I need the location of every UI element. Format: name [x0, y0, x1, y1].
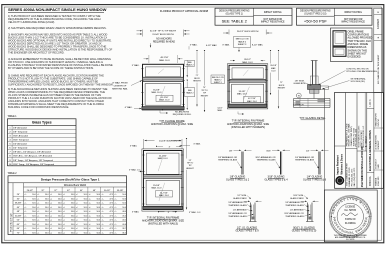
svg-text:50.0: 50.0 — [58, 232, 61, 234]
svg-text:3" MAX.: 3" MAX. — [193, 142, 201, 145]
svg-text:FLORIDA: FLORIDA — [345, 222, 356, 225]
svg-text:3/16" Tempered: 3/16" Tempered — [13, 139, 29, 142]
svg-text:FL# 58705: FL# 58705 — [346, 239, 354, 241]
svg-text:3/16" Ann., 1/4" Airspace, 1/8: 3/16" Ann., 1/4" Airspace, 1/8" Annealed — [13, 155, 53, 158]
svg-text:(GLASS TYPE 1): (GLASS TYPE 1) — [226, 13, 244, 16]
svg-text:3" MAX.: 3" MAX. — [222, 43, 230, 46]
svg-text:1/8" ANNEALED OR: 1/8" ANNEALED OR — [228, 201, 247, 204]
svg-text:HEIGHT: HEIGHT — [193, 81, 201, 83]
svg-text:47.5: 47.5 — [110, 220, 113, 222]
svg-text:DOW 795, 899, 995 OR: DOW 795, 899, 995 OR — [347, 68, 370, 70]
svg-text:GLASS TYPES 3 & 4: GLASS TYPES 3 & 4 — [264, 179, 288, 182]
svg-text:2SH WINDOW INSTALLATION (N): 2SH WINDOW INSTALLATION (N) — [360, 146, 364, 187]
svg-text:47.5: 47.5 — [110, 211, 113, 213]
svg-text:50.0: 50.0 — [45, 203, 48, 205]
svg-text:50.0: 50.0 — [71, 211, 74, 213]
svg-text:Design Pressure (lbs/ft²) for: Design Pressure (lbs/ft²) for Glass Type… — [41, 178, 100, 182]
svg-text:42": 42" — [67, 190, 70, 192]
svg-text:1/8" ANNEALED OR: 1/8" ANNEALED OR — [218, 156, 237, 159]
svg-text:50-5/8": 50-5/8" — [15, 215, 22, 217]
svg-text:50.0: 50.0 — [71, 228, 74, 230]
svg-text:1/8" NOM.: 1/8" NOM. — [295, 81, 305, 83]
svg-text:50.0: 50.0 — [58, 207, 61, 209]
svg-text:50.0: 50.0 — [58, 224, 61, 226]
svg-text:TABLE 2: TABLE 2 — [214, 78, 221, 81]
svg-text:50.0: 50.0 — [71, 207, 74, 209]
svg-text:TABLE 2: TABLE 2 — [238, 40, 247, 43]
svg-text:50.0: 50.0 — [97, 203, 100, 205]
svg-text:TABLE 2: TABLE 2 — [186, 92, 193, 95]
svg-text:SHEET 3: SHEET 3 — [214, 82, 222, 84]
svg-text:GLASS TYPES 5 & 6: GLASS TYPES 5 & 6 — [303, 179, 327, 182]
svg-text:50.0: 50.0 — [84, 203, 87, 205]
svg-text:50.0: 50.0 — [32, 194, 35, 196]
svg-text:50.0: 50.0 — [84, 215, 87, 217]
svg-text:8-1/2" MAX.: 8-1/2" MAX. — [252, 44, 264, 47]
svg-text:SH4000A: SH4000A — [369, 176, 372, 186]
svg-text:50-1/2": 50-1/2" — [104, 190, 111, 192]
svg-text:NO ANCHORS: NO ANCHORS — [156, 37, 172, 40]
svg-text:50.0: 50.0 — [97, 198, 100, 200]
svg-text:28-1/2" BUCK WIDTH: 28-1/2" BUCK WIDTH — [237, 31, 259, 33]
svg-text:3" MAX.: 3" MAX. — [132, 64, 140, 67]
svg-text:50.0: 50.0 — [32, 220, 35, 222]
svg-text:3/16" Annealed: 3/16" Annealed — [13, 134, 29, 137]
svg-text:1/8" Annealed: 1/8" Annealed — [13, 126, 27, 129]
svg-text:1/8" ANNEALED OR: 1/8" ANNEALED OR — [285, 201, 304, 204]
svg-text:44": 44" — [17, 207, 20, 209]
svg-text:1/4" Tempered: 1/4" Tempered — [13, 147, 28, 150]
svg-text:74": 74" — [203, 87, 206, 89]
svg-text:50.0: 50.0 — [97, 215, 100, 217]
svg-text:SHEET 3: SHEET 3 — [238, 44, 247, 46]
svg-text:26-1/8": 26-1/8" — [270, 65, 277, 67]
svg-text:09/20/17: 09/20/17 — [365, 136, 367, 143]
svg-text:1/8" Ann., 1/4" Airspace, 1/8": 1/8" Ann., 1/4" Airspace, 1/8" Annealed — [13, 151, 51, 154]
svg-text:SH4000A: SH4000A — [375, 177, 378, 186]
svg-text:DESIGN PRESSURE RATING: DESIGN PRESSURE RATING — [300, 10, 331, 13]
svg-text:W: W — [298, 95, 300, 97]
svg-text:50.0: 50.0 — [45, 232, 48, 234]
svg-text:3/16" ANNEALED OR: 3/16" ANNEALED OR — [284, 212, 304, 215]
svg-text:SEE DLO ON: SEE DLO ON — [236, 39, 249, 41]
svg-text:NO ANCHORS: NO ANCHORS — [175, 110, 190, 113]
svg-text:BUCK: BUCK — [194, 78, 200, 80]
svg-text:1/8" Tempered: 1/8" Tempered — [13, 130, 28, 133]
svg-text:(GLASS TYPES 2-10): (GLASS TYPES 2-10) — [304, 13, 326, 16]
svg-text:50.0: 50.0 — [122, 194, 125, 196]
svg-text:50.0: 50.0 — [58, 194, 61, 196]
svg-text:6" MAX.: 6" MAX. — [125, 106, 133, 109]
svg-text:50.0: 50.0 — [45, 228, 48, 230]
svg-text:Windows & Doors: Windows & Doors — [340, 153, 343, 174]
svg-text:MAX. DLO: MAX. DLO — [152, 91, 162, 94]
svg-text:50.0: 50.0 — [97, 228, 100, 230]
svg-text:50.0: 50.0 — [45, 194, 48, 196]
svg-text:GE SPACER(S),: GE SPACER(S), — [351, 77, 367, 80]
svg-text:IMPACT RATING: IMPACT RATING — [264, 11, 282, 14]
svg-text:50.0: 50.0 — [71, 198, 74, 200]
svg-text:50.0: 50.0 — [58, 220, 61, 222]
svg-text:32": 32" — [17, 198, 20, 200]
svg-text:72": 72" — [17, 232, 20, 234]
svg-text:50.0: 50.0 — [45, 207, 48, 209]
svg-text:MAX. DLO: MAX. DLO — [159, 194, 169, 197]
svg-text:FLORIDA PRODUCT APPROVAL #2339: FLORIDA PRODUCT APPROVAL #23398 — [160, 9, 209, 13]
svg-text:2) SHUTTERS ARE REQUIRED WHEN: 2) SHUTTERS ARE REQUIRED WHEN USED IN WI… — [8, 26, 107, 30]
svg-text:Glass Types: Glass Types — [32, 121, 52, 125]
svg-text:1 OF 4: 1 OF 4 — [369, 99, 372, 107]
svg-text:50.0: 50.0 — [84, 194, 87, 196]
svg-text:HEIGHT: HEIGHT — [278, 88, 286, 90]
svg-text:50.0: 50.0 — [122, 207, 125, 209]
svg-text:66": 66" — [17, 228, 20, 230]
svg-text:50.0: 50.0 — [71, 220, 74, 222]
svg-text:ANCHOR LOCATIONS @ MAX. SIZE: ANCHOR LOCATIONS @ MAX. SIZE — [151, 123, 193, 126]
svg-text:50.0: 50.0 — [84, 207, 87, 209]
svg-text:GLASS BITE: GLASS BITE — [293, 82, 306, 85]
svg-text:1/8" Temp., 1/4" Airspace, 1/8: 1/8" Temp., 1/4" Airspace, 1/8" Tempered — [13, 159, 53, 162]
svg-text:THE ENGINEER OR ARCHITECT OF R: THE ENGINEER OR ARCHITECT OF RECORD. — [8, 50, 65, 54]
svg-text:37": 37" — [54, 190, 57, 192]
svg-text:IMPACT RATING: IMPACT RATING — [344, 11, 362, 14]
svg-text:32": 32" — [41, 190, 44, 192]
svg-text:44": 44" — [80, 190, 83, 192]
svg-text:47.5: 47.5 — [110, 232, 113, 234]
svg-text:31-5/8" BUCK WIDTH: 31-5/8" BUCK WIDTH — [152, 34, 174, 36]
svg-text:50.0: 50.0 — [32, 228, 35, 230]
svg-text:50.0: 50.0 — [32, 224, 35, 226]
svg-text:MAX.: MAX. — [218, 109, 223, 112]
svg-text:TEMPERED GLASS: TEMPERED GLASS — [285, 204, 304, 207]
svg-text:47.5: 47.5 — [110, 207, 113, 209]
svg-text:MAX. DLO: MAX. DLO — [247, 100, 257, 103]
svg-text:50.0: 50.0 — [45, 224, 48, 226]
svg-text:50.0: 50.0 — [122, 198, 125, 200]
svg-text:28-1/2": 28-1/2" — [244, 59, 251, 61]
svg-text:6-1/2" MAX.: 6-1/2" MAX. — [206, 44, 218, 47]
svg-text:50.0: 50.0 — [32, 198, 35, 200]
svg-text:3" MAX. O.C.: 3" MAX. O.C. — [129, 169, 141, 172]
svg-text:TABLE 1: TABLE 1 — [8, 115, 18, 118]
svg-text:NOT RATED FOR: NOT RATED FOR — [344, 18, 363, 21]
svg-text:NOT RATED FOR: NOT RATED FOR — [263, 18, 282, 21]
svg-text:REQUIRED IN SILL: REQUIRED IN SILL — [173, 114, 192, 116]
svg-text:50.0: 50.0 — [97, 220, 100, 222]
svg-text:REQUIRED IN HEAD: REQUIRED IN HEAD — [153, 40, 175, 43]
svg-text:1/2" NOM.: 1/2" NOM. — [237, 195, 247, 197]
svg-text:SCALE NTS: SCALE NTS — [377, 176, 380, 186]
svg-text:47.5: 47.5 — [110, 228, 113, 230]
svg-text:MAX. DLO: MAX. DLO — [237, 93, 247, 96]
svg-text:STATE OF: STATE OF — [345, 218, 356, 221]
svg-text:IMPACT RESISTANCE: IMPACT RESISTANCE — [261, 21, 285, 24]
svg-text:50.0: 50.0 — [45, 198, 48, 200]
svg-text:+50/-50 PSF: +50/-50 PSF — [304, 19, 328, 24]
svg-text:9/16" NOM.: 9/16" NOM. — [293, 195, 304, 197]
svg-text:50.0: 50.0 — [58, 198, 61, 200]
svg-text:47-7/16": 47-7/16" — [248, 98, 256, 100]
svg-text:43.1: 43.1 — [122, 220, 125, 222]
svg-text:3" MAX. O.C.: 3" MAX. O.C. — [189, 211, 201, 214]
svg-text:Window Buck Height: Window Buck Height — [9, 213, 12, 232]
svg-text:SEE TABLE 2: SEE TABLE 2 — [222, 19, 248, 24]
svg-text:50.0: 50.0 — [97, 224, 100, 226]
svg-text:SUFFICIENTLY ANCHORED TO RESIS: SUFFICIENTLY ANCHORED TO RESIST LOADS IM… — [8, 83, 113, 87]
svg-text:48": 48" — [93, 190, 96, 192]
svg-text:50.0: 50.0 — [97, 232, 100, 234]
svg-text:TEMPERED GLASS: TEMPERED GLASS — [295, 159, 315, 162]
svg-text:50.0: 50.0 — [58, 211, 61, 213]
svg-text:3" MAX.: 3" MAX. — [130, 145, 138, 148]
svg-text:38-3/8": 38-3/8" — [15, 203, 22, 205]
svg-text:41-7/16": 41-7/16" — [161, 97, 169, 99]
svg-text:TABLE 2: TABLE 2 — [186, 64, 193, 67]
svg-text:(INSTALLED WITH SCREWS): (INSTALLED WITH SCREWS) — [231, 126, 265, 129]
svg-text:CENTER OF: CENTER OF — [114, 86, 127, 88]
svg-text:50.0: 50.0 — [32, 215, 35, 217]
svg-text:50.0: 50.0 — [71, 224, 74, 226]
svg-text:32-1/8" TIP TO TIP WIDTH: 32-1/8" TIP TO TIP WIDTH — [150, 31, 177, 33]
svg-text:TEMPERED GLASS: TEMPERED GLASS — [285, 215, 304, 218]
svg-text:50.0: 50.0 — [97, 207, 100, 209]
svg-text:50.0: 50.0 — [71, 232, 74, 234]
svg-text:NO CHANGES ON THIS SHEET: NO CHANGES ON THIS SHEET — [377, 54, 380, 84]
svg-text:50.0: 50.0 — [32, 211, 35, 213]
svg-text:EXTERIOR: EXTERIOR — [294, 105, 305, 107]
svg-text:50.0: 50.0 — [71, 194, 74, 196]
svg-text:48.0: 48.0 — [122, 211, 125, 213]
svg-text:50.0: 50.0 — [71, 215, 74, 217]
svg-text:GLASS TYPES 7 & 9: GLASS TYPES 7 & 9 — [235, 229, 259, 232]
svg-text:8" MAX. FROM: 8" MAX. FROM — [113, 82, 128, 85]
svg-text:50.0: 50.0 — [84, 228, 87, 230]
svg-text:GLASS STACK: GLASS STACK — [290, 197, 304, 200]
svg-text:3" MAX.: 3" MAX. — [132, 211, 140, 214]
svg-text:TEMPERED GLASS: TEMPERED GLASS — [228, 215, 247, 218]
svg-text:47.5: 47.5 — [110, 194, 113, 196]
svg-text:HEIGHT: HEIGHT — [186, 168, 194, 170]
svg-text:BUCK: BUCK — [279, 85, 285, 87]
svg-text:50.0: 50.0 — [97, 194, 100, 196]
svg-text:MAX. DLO: MAX. DLO — [242, 61, 253, 64]
svg-text:3" MAX.: 3" MAX. — [190, 43, 198, 46]
svg-text:50.0: 50.0 — [122, 203, 125, 205]
svg-text:60": 60" — [17, 224, 20, 226]
svg-text:50.0: 50.0 — [84, 232, 87, 234]
svg-text:71": 71" — [280, 82, 283, 84]
svg-text:50.0: 50.0 — [32, 203, 35, 205]
svg-text:24-1/8" BUCK WIDTH: 24-1/8" BUCK WIDTH — [159, 140, 181, 142]
svg-text:PH: (954) 400-1234: PH: (954) 400-1234 — [356, 128, 358, 146]
svg-text:DLO: DLO — [271, 71, 276, 73]
svg-text:71": 71" — [196, 75, 199, 77]
svg-text:50.0: 50.0 — [58, 215, 61, 217]
svg-text:50.0: 50.0 — [32, 207, 35, 209]
svg-text:3/16": 3/16" — [266, 150, 271, 152]
svg-text:38.7: 38.7 — [122, 228, 125, 230]
svg-text:50.0: 50.0 — [71, 203, 74, 205]
svg-text:3": 3" — [169, 146, 171, 148]
svg-text:50.0: 50.0 — [97, 211, 100, 213]
svg-text:47.5: 47.5 — [110, 215, 113, 217]
svg-text:50.0: 50.0 — [45, 220, 48, 222]
svg-text:50.0: 50.0 — [45, 215, 48, 217]
svg-text:GLASS TYPES 1 & 2: GLASS TYPES 1 & 2 — [226, 179, 250, 182]
svg-text:53-1/8": 53-1/8" — [117, 190, 124, 192]
svg-text:50.0: 50.0 — [84, 224, 87, 226]
svg-text:50.0: 50.0 — [58, 228, 61, 230]
svg-text:DESIGN PRESSURE RATING: DESIGN PRESSURE RATING — [219, 10, 250, 13]
svg-text:TABLE 2: TABLE 2 — [8, 172, 18, 175]
svg-text:50.0: 50.0 — [32, 232, 35, 234]
svg-text:No. 58705: No. 58705 — [345, 209, 357, 212]
svg-text:Window Buck Width: Window Buck Width — [64, 184, 87, 187]
svg-text:SERIES 4000A NON-IMPACT SINGLE: SERIES 4000A NON-IMPACT SINGLE HUNG WIND… — [8, 7, 107, 12]
svg-text:47.5: 47.5 — [110, 203, 113, 205]
svg-text:36.2: 36.2 — [122, 232, 125, 234]
svg-text:3/16" Temp., 1/4" Airspace, 1/: 3/16" Temp., 1/4" Airspace, 1/8" Tempere… — [13, 163, 55, 166]
svg-text:1/4" Annealed: 1/4" Annealed — [13, 143, 27, 146]
svg-text:48": 48" — [17, 211, 20, 213]
svg-text:(INSTALLED WITH NAILS): (INSTALLED WITH NAILS) — [148, 223, 178, 226]
svg-text:26-1/2": 26-1/2" — [27, 190, 34, 192]
svg-text:1/8" ANNEALED OR: 1/8" ANNEALED OR — [228, 212, 247, 215]
svg-text:DWG. NO.: DWG. NO. — [378, 118, 380, 127]
svg-text:12/13/23: 12/13/23 — [377, 19, 380, 29]
svg-text:IMPACT RESISTANCE: IMPACT RESISTANCE — [341, 21, 365, 24]
svg-text:41-7/16": 41-7/16" — [160, 193, 168, 195]
svg-text:1/4" AIRSPACE: 1/4" AIRSPACE — [233, 208, 248, 211]
svg-text:FAX: (954) 442-1575: FAX: (954) 442-1575 — [353, 167, 356, 186]
svg-text:TEMPERED GLASS: TEMPERED GLASS — [218, 159, 238, 162]
svg-text:50.0: 50.0 — [84, 198, 87, 200]
svg-text:50.0: 50.0 — [84, 220, 87, 222]
svg-text:3": 3" — [168, 212, 170, 214]
svg-text:EXCEEDED.: EXCEEDED. — [348, 56, 362, 59]
svg-text:TEMPERED GLASS: TEMPERED GLASS — [256, 159, 276, 162]
svg-text:50.0: 50.0 — [45, 211, 48, 213]
svg-text:ELEVATION & GENERAL NOTES: ELEVATION & GENERAL NOTES — [368, 130, 372, 171]
svg-text:MAX. DLO: MAX. DLO — [160, 99, 170, 102]
svg-text:HEIGHT: HEIGHT — [201, 95, 209, 97]
svg-text:47.5: 47.5 — [110, 198, 113, 200]
svg-text:40.6: 40.6 — [122, 224, 125, 226]
svg-text:BUILDING CODE FOR CORROSION RE: BUILDING CODE FOR CORROSION RESISTANCE. — [8, 105, 69, 109]
svg-text:TIP TO: TIP TO — [201, 90, 208, 92]
svg-text:A. MOBLEY/LPA: A. MOBLEY/LPA — [375, 135, 378, 150]
svg-text:47.5: 47.5 — [110, 224, 113, 226]
svg-text:54": 54" — [17, 220, 20, 222]
svg-text:DRAWN BY: DRAWN BY — [377, 140, 380, 150]
svg-text:MAX. DLO: MAX. DLO — [159, 59, 170, 62]
svg-text:TEMPERED GLASS: TEMPERED GLASS — [228, 204, 247, 207]
svg-text:MAX. DLO: MAX. DLO — [152, 187, 162, 190]
svg-text:1/4": 1/4" — [306, 150, 310, 152]
svg-text:VELOCITY HURRICANE ZONE (HVHZ): VELOCITY HURRICANE ZONE (HVHZ). — [8, 20, 55, 24]
svg-text:GLASS TYPES 8 & 10: GLASS TYPES 8 & 10 — [292, 229, 317, 232]
svg-text:GLASS STACK: GLASS STACK — [233, 197, 247, 200]
svg-text:26": 26" — [17, 194, 20, 196]
svg-text:SCS 2000 (SIL): SCS 2000 (SIL) — [351, 81, 366, 83]
svg-text:MEETING RAIL: MEETING RAIL — [112, 88, 128, 91]
svg-text:3/16" ANNEALED OR: 3/16" ANNEALED OR — [255, 156, 276, 159]
svg-text:45.0: 45.0 — [122, 215, 125, 217]
svg-text:MAX. DLO: MAX. DLO — [158, 157, 168, 160]
svg-text:BY OTHERS AND IS BEYOND THE SC: BY OTHERS AND IS BEYOND THE SCOPE OF THE… — [8, 66, 94, 70]
svg-text:1/4" AIRSPACE: 1/4" AIRSPACE — [290, 208, 305, 211]
svg-text:50.0: 50.0 — [84, 211, 87, 213]
svg-text:1/8": 1/8" — [229, 150, 233, 152]
svg-text:48-7/16": 48-7/16" — [160, 57, 168, 59]
svg-text:1/4" ANNEALED OR: 1/4" ANNEALED OR — [295, 156, 314, 159]
svg-text:50.0: 50.0 — [58, 203, 61, 205]
svg-text:MAX.: MAX. — [271, 67, 276, 70]
svg-text:Impact Resistant: Impact Resistant — [337, 155, 340, 174]
svg-text:RTV-4500-1700 BACKBEDDING: RTV-4500-1700 BACKBEDDING — [347, 70, 378, 73]
svg-text:TYP. GLAZING DETAIL: TYP. GLAZING DETAIL — [299, 117, 326, 120]
